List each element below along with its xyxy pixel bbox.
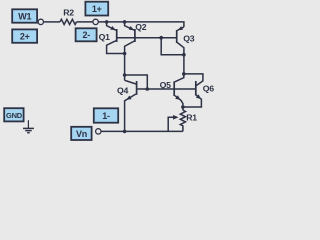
node D8 Q4 collector branch <box>123 73 127 77</box>
wire W1 terminal to R2 <box>44 21 60 23</box>
node D5 Q3 collector tie <box>182 53 186 57</box>
wire Q3 base tie <box>161 38 184 55</box>
terminal circle 1+ <box>93 19 98 24</box>
resistor R2 <box>60 19 77 24</box>
arrow R1 wiper <box>173 115 179 120</box>
label box Vn <box>71 127 91 140</box>
wire shared base Q1 Q2 Q3 <box>117 37 176 39</box>
transistor Q1 <box>107 23 116 31</box>
label box W1 <box>12 9 37 22</box>
svg-text:2+: 2+ <box>20 32 30 42</box>
node D6 collectors Q5 Q6 <box>182 72 186 76</box>
node D2 top rail to Q2 <box>123 20 127 24</box>
wire R2 to 1+ terminal <box>77 21 93 23</box>
svg-text:Q1: Q1 <box>99 32 111 42</box>
label box 1- <box>94 108 118 122</box>
arrow Q6 emitter <box>196 94 201 99</box>
wire bottom rail Vn to R1 <box>101 130 182 132</box>
svg-text:R1: R1 <box>186 112 197 122</box>
arrow Q4 emitter <box>126 96 131 100</box>
arrow Q3 emitter <box>178 26 183 30</box>
wire R1 wiper <box>168 117 173 131</box>
arrow Q1 emitter <box>110 26 115 30</box>
svg-text:Q3: Q3 <box>183 34 195 44</box>
node D7 Q4 base tie <box>146 87 150 91</box>
svg-text:Q6: Q6 <box>203 83 215 93</box>
transistor Q4 <box>125 80 136 84</box>
transistor Q2 <box>125 23 135 31</box>
svg-text:2-: 2- <box>82 30 90 40</box>
wire collector junction down to Q4 <box>124 54 126 81</box>
wire Q4 collector tie <box>125 75 148 89</box>
label box 1+ <box>85 2 108 16</box>
wire R1 top lead <box>182 107 184 110</box>
node D3 Q1 Q2 collectors <box>123 52 127 56</box>
resistor R1 <box>180 110 185 131</box>
node D9 Vn rail junction <box>123 130 127 134</box>
transistor Q3 <box>177 27 184 30</box>
arrow Q5 emitter <box>175 95 180 100</box>
terminal circle Vn <box>96 129 101 134</box>
svg-text:Q4: Q4 <box>117 85 129 95</box>
svg-text:Q2: Q2 <box>135 22 147 32</box>
wire top rail <box>99 22 184 27</box>
arrow Q2 emitter <box>129 26 134 30</box>
terminal circle W1 <box>38 19 43 24</box>
ground <box>23 120 34 133</box>
node D10 R1 top emitters <box>181 105 185 109</box>
transistor Q5 <box>175 74 184 82</box>
svg-text:Vn: Vn <box>76 129 87 139</box>
svg-text:R2: R2 <box>63 8 74 18</box>
svg-text:W1: W1 <box>18 12 31 22</box>
node D1 top rail to Q1 <box>105 20 109 24</box>
label box 2+ <box>12 29 37 42</box>
wire Q3 collector down <box>183 55 185 74</box>
transistor Q6 <box>195 81 197 95</box>
svg-text:1-: 1- <box>102 111 110 121</box>
svg-text:Q5: Q5 <box>160 80 172 90</box>
node D4 base line tie <box>159 36 163 40</box>
label box 2- <box>76 28 97 41</box>
label box GND <box>4 108 23 121</box>
svg-text:GND: GND <box>6 111 23 120</box>
wire Q6 collector loop <box>184 74 203 86</box>
svg-text:1+: 1+ <box>92 4 102 14</box>
wire shared base Q4 Q5 Q6 <box>137 88 195 90</box>
